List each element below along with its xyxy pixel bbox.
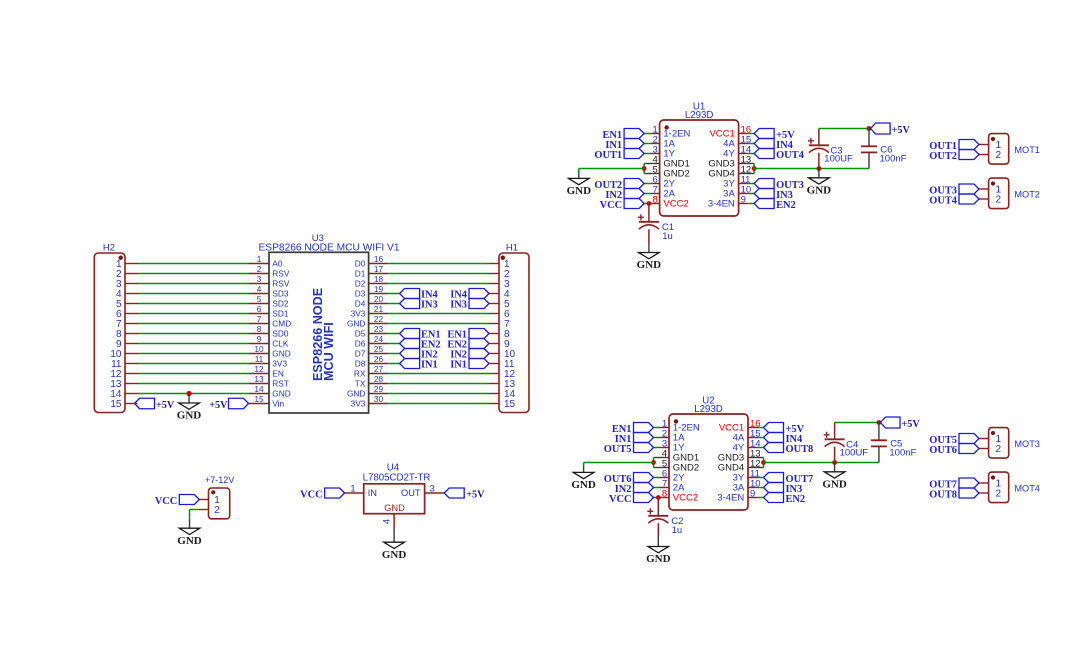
svg-text:IN1: IN1	[421, 360, 438, 371]
svg-text:3V3: 3V3	[272, 359, 287, 369]
svg-text:GND: GND	[347, 319, 365, 329]
svg-text:15: 15	[254, 394, 264, 404]
svg-text:OUT8: OUT8	[786, 444, 814, 455]
svg-text:GND: GND	[822, 479, 847, 491]
svg-text:VCC2: VCC2	[673, 493, 698, 504]
svg-text:22: 22	[374, 314, 384, 324]
svg-text:1u: 1u	[662, 231, 673, 242]
svg-text:OUT: OUT	[401, 488, 421, 498]
svg-text:17: 17	[374, 264, 384, 274]
svg-text:L7805CD2T-TR: L7805CD2T-TR	[363, 472, 431, 483]
svg-text:100nF: 100nF	[880, 154, 907, 165]
svg-text:D3: D3	[355, 289, 366, 299]
svg-text:A0: A0	[272, 259, 283, 269]
svg-text:13: 13	[254, 374, 264, 384]
svg-text:100UF: 100UF	[824, 154, 853, 165]
svg-text:26: 26	[374, 354, 384, 364]
svg-text:4: 4	[257, 284, 262, 294]
svg-text:25: 25	[374, 344, 384, 354]
svg-text:+5V: +5V	[902, 419, 921, 430]
svg-text:CLK: CLK	[272, 339, 289, 349]
svg-text:+7-12V: +7-12V	[205, 475, 234, 485]
svg-text:OUT4: OUT4	[776, 150, 804, 161]
svg-text:IN3: IN3	[450, 300, 467, 311]
svg-text:30: 30	[374, 394, 384, 404]
svg-text:MOT3: MOT3	[1014, 439, 1040, 449]
svg-text:RSV: RSV	[272, 279, 290, 289]
svg-text:VCC: VCC	[600, 200, 623, 211]
svg-text:3V3: 3V3	[351, 399, 366, 409]
svg-text:+5V: +5V	[209, 400, 228, 411]
svg-text:7: 7	[257, 314, 262, 324]
svg-text:OUT1: OUT1	[594, 150, 622, 161]
svg-text:OUT6: OUT6	[929, 445, 957, 456]
svg-text:2: 2	[996, 150, 1002, 161]
svg-text:6: 6	[257, 304, 262, 314]
svg-text:H2: H2	[103, 243, 115, 254]
svg-text:11: 11	[255, 354, 264, 364]
svg-text:8: 8	[257, 324, 262, 334]
svg-text:RX: RX	[354, 369, 366, 379]
svg-text:MOT1: MOT1	[1014, 145, 1040, 155]
svg-text:OUT2: OUT2	[929, 151, 957, 162]
svg-text:27: 27	[374, 364, 384, 374]
svg-text:5: 5	[257, 294, 262, 304]
svg-text:SD2: SD2	[272, 299, 289, 309]
svg-text:TX: TX	[355, 379, 366, 389]
svg-text:MCU WIFI: MCU WIFI	[322, 322, 336, 381]
svg-text:18: 18	[374, 274, 384, 284]
svg-text:IN: IN	[368, 488, 377, 498]
svg-text:D8: D8	[355, 359, 366, 369]
svg-text:GND: GND	[637, 259, 662, 271]
svg-text:4: 4	[382, 519, 392, 524]
svg-text:OUT5: OUT5	[604, 444, 632, 455]
svg-text:15: 15	[110, 399, 122, 410]
svg-text:GND: GND	[567, 185, 592, 197]
svg-text:GND: GND	[177, 535, 202, 547]
svg-text:D5: D5	[355, 329, 366, 339]
svg-text:EN2: EN2	[786, 494, 806, 505]
svg-text:D0: D0	[355, 259, 366, 269]
svg-text:GND: GND	[272, 349, 290, 359]
svg-text:2: 2	[214, 505, 220, 516]
svg-text:D2: D2	[355, 279, 366, 289]
svg-text:RST: RST	[272, 379, 289, 389]
svg-text:2: 2	[996, 444, 1002, 455]
svg-text:3: 3	[257, 274, 262, 284]
svg-text:1: 1	[350, 484, 355, 494]
svg-text:24: 24	[374, 334, 384, 344]
svg-text:9: 9	[257, 334, 262, 344]
svg-text:2: 2	[996, 489, 1002, 500]
svg-text:L293D: L293D	[694, 404, 723, 415]
svg-text:VCC2: VCC2	[663, 199, 688, 210]
svg-text:GND: GND	[347, 389, 365, 399]
svg-text:GND: GND	[646, 553, 671, 565]
svg-text:MOT4: MOT4	[1014, 484, 1040, 494]
svg-text:GND: GND	[272, 389, 290, 399]
svg-text:GND: GND	[384, 503, 405, 513]
svg-text:21: 21	[374, 304, 384, 314]
svg-text:D1: D1	[355, 269, 366, 279]
svg-text:+5V: +5V	[466, 490, 485, 501]
svg-text:16: 16	[374, 254, 384, 264]
svg-text:2: 2	[257, 264, 262, 274]
svg-text:H1: H1	[506, 243, 518, 254]
svg-text:ESP8266 NODE MCU WIFI V1: ESP8266 NODE MCU WIFI V1	[259, 243, 400, 254]
svg-text:100UF: 100UF	[840, 448, 869, 459]
svg-text:EN2: EN2	[776, 200, 796, 211]
svg-text:28: 28	[374, 374, 384, 384]
svg-text:GND: GND	[571, 479, 596, 491]
svg-text:3: 3	[430, 484, 435, 494]
svg-text:GND: GND	[382, 549, 407, 561]
svg-text:+5V: +5V	[892, 125, 911, 136]
svg-text:OUT4: OUT4	[929, 195, 957, 206]
svg-text:CMD: CMD	[272, 319, 291, 329]
svg-text:100nF: 100nF	[889, 448, 916, 459]
svg-text:D4: D4	[355, 299, 366, 309]
svg-text:1: 1	[257, 254, 262, 264]
svg-text:IN1: IN1	[450, 360, 467, 371]
svg-text:IN3: IN3	[421, 300, 438, 311]
svg-text:12: 12	[254, 364, 264, 374]
svg-text:+5V: +5V	[156, 400, 175, 411]
svg-text:VCC: VCC	[155, 496, 178, 507]
svg-text:D7: D7	[355, 349, 366, 359]
svg-text:OUT8: OUT8	[929, 489, 957, 500]
svg-text:GND: GND	[807, 185, 832, 197]
svg-text:15: 15	[504, 399, 516, 410]
svg-text:10: 10	[254, 344, 264, 354]
svg-text:19: 19	[374, 284, 384, 294]
svg-text:14: 14	[254, 384, 264, 394]
svg-text:L293D: L293D	[685, 110, 714, 121]
svg-text:VCC: VCC	[300, 489, 323, 500]
svg-text:SD3: SD3	[272, 289, 289, 299]
svg-text:2: 2	[996, 195, 1002, 206]
svg-text:23: 23	[374, 324, 384, 334]
svg-text:VCC: VCC	[609, 494, 632, 505]
svg-text:RSV: RSV	[272, 269, 290, 279]
svg-text:MOT2: MOT2	[1014, 190, 1040, 200]
svg-text:3-4EN: 3-4EN	[717, 493, 744, 504]
svg-text:3-4EN: 3-4EN	[708, 199, 735, 210]
svg-text:29: 29	[374, 384, 384, 394]
svg-text:Vin: Vin	[272, 399, 284, 409]
svg-text:1u: 1u	[672, 525, 683, 536]
svg-text:D6: D6	[355, 339, 366, 349]
svg-text:3V3: 3V3	[351, 309, 366, 319]
svg-text:GND: GND	[177, 410, 202, 422]
svg-text:20: 20	[374, 294, 384, 304]
svg-text:EN: EN	[272, 369, 284, 379]
svg-text:SD0: SD0	[272, 329, 289, 339]
svg-text:SD1: SD1	[272, 309, 289, 319]
